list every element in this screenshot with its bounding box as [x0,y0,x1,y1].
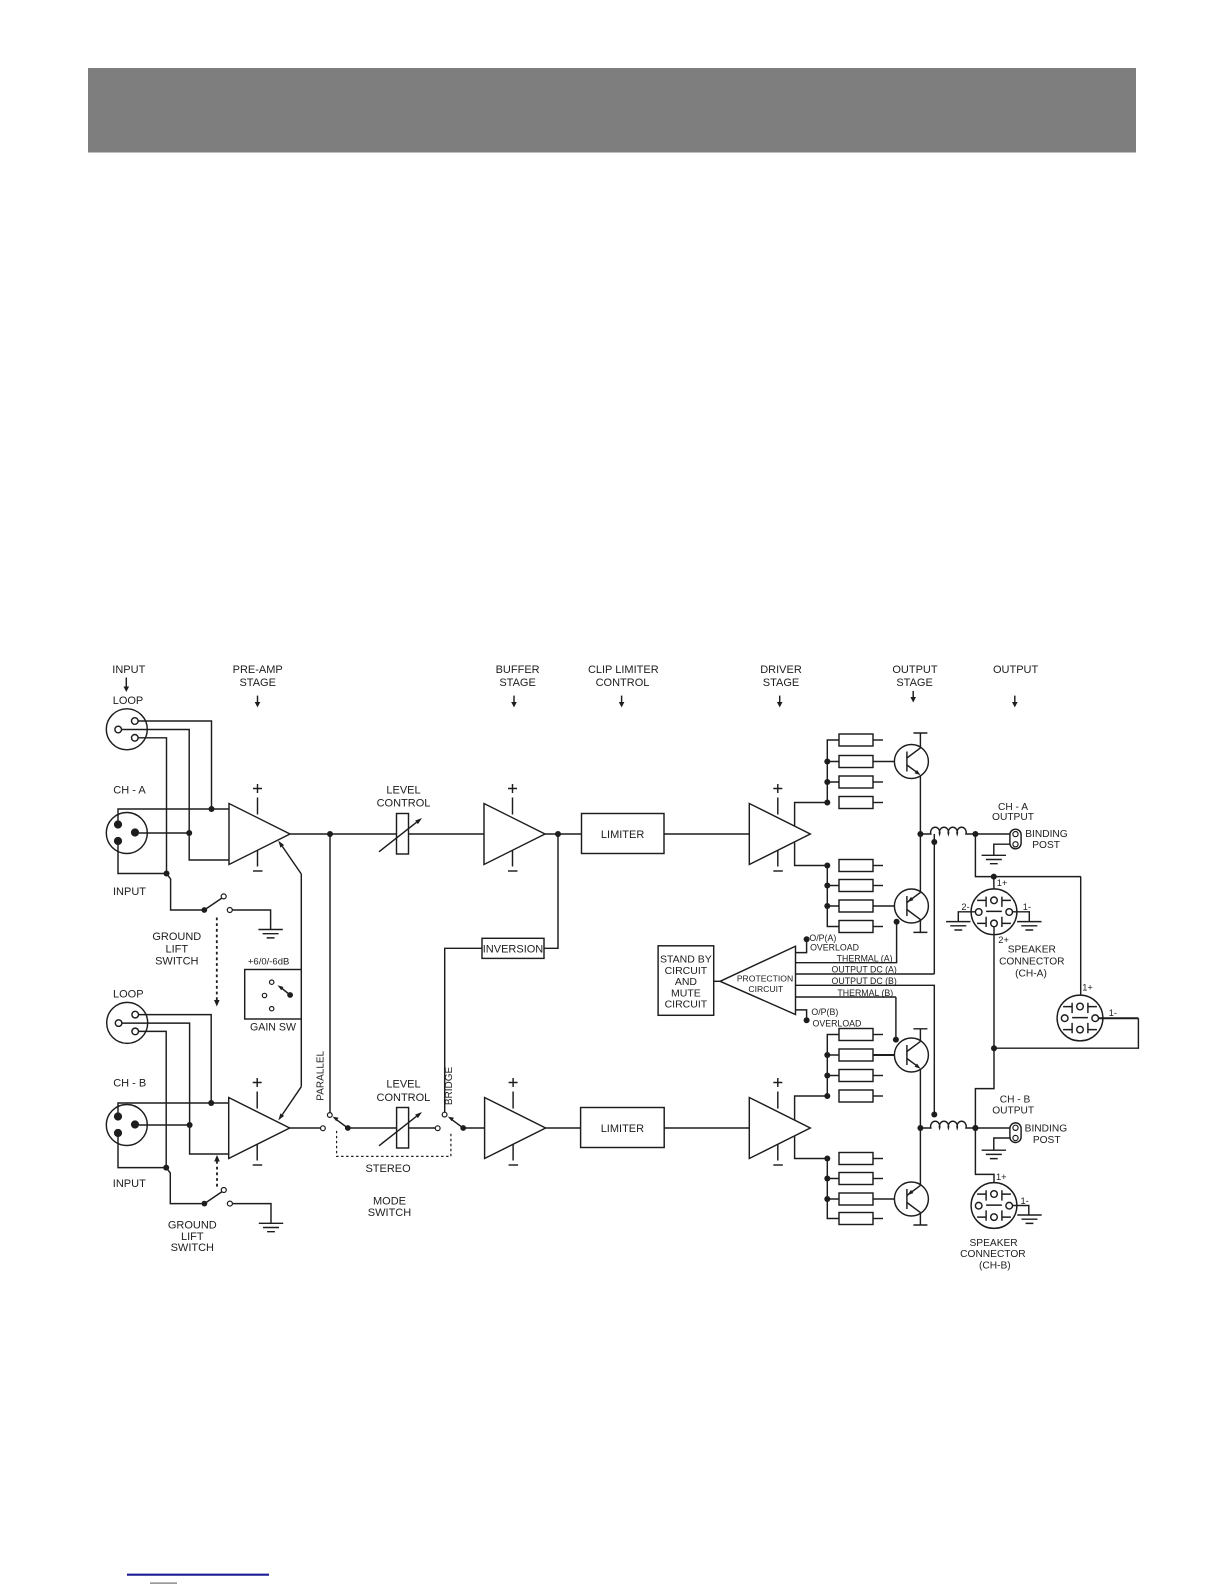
label SPEAKER CONNECTOR (CH-B) [960,1238,1025,1272]
svg-text:CIRCUIT: CIRCUIT [665,999,708,1011]
svg-text:OUTPUT DC (A): OUTPUT DC (A) [832,965,897,975]
resistor B-R5 [839,1153,883,1165]
wire: THERMAL (A) sense line [796,925,897,963]
protection circuit triangle [720,946,795,1014]
wire: loop A pin3 down to ground-lift node [138,738,166,874]
op-amp U4 buffer B [485,1078,546,1165]
wire: PARALLEL line down to mode switch [329,834,331,1113]
wire: switch A contact to ground [232,910,270,929]
ground symbol (speakon A left) [946,922,970,930]
resistor B-R3 [839,1070,883,1082]
wire: level control A to buffer A [409,833,485,835]
junction dot bus B-R3 [824,1073,830,1079]
svg-text:INPUT: INPUT [113,886,146,898]
gain switch contacts [262,980,293,1011]
junction dot bus A-R3 [824,779,830,785]
svg-text:O/P(B): O/P(B) [811,1007,838,1017]
op-amp U3 buffer A [484,784,545,871]
svg-text:INPUT: INPUT [112,664,145,676]
junction dot O/P(B) overload [804,1017,810,1023]
svg-text:OVERLOAD: OVERLOAD [810,943,859,953]
wire: 1+ rail down to bridge connector [1080,877,1082,1004]
svg-text:OUTPUT: OUTPUT [892,664,938,676]
potentiometer VR1 level control A [379,814,422,855]
wire: driver A upper output tap [795,803,828,827]
junction dot bus A-R6 [824,883,830,889]
limiter box B [581,1108,665,1148]
wire: pre-amp B output to stereo contact [290,1127,321,1129]
mode switch S1 (parallel/stereo) [321,1113,351,1131]
junction dot bus A-R2 [824,759,830,765]
svg-text:BINDING: BINDING [1025,1123,1068,1134]
svg-text:AND: AND [675,976,698,988]
svg-text:SWITCH: SWITCH [155,956,198,968]
junction dot speakon A 1+ [991,874,997,880]
arrow under PRE-AMP STAGE [255,696,261,708]
wire: CH-A pin1 up and right to pre-amp A non-inverting input [118,809,229,821]
svg-text:2-: 2- [961,902,969,912]
wire: standby box to protection triangle [714,980,720,982]
svg-text:BINDING: BINDING [1025,829,1068,840]
label GROUND LIFT SWITCH (A) [152,931,201,968]
supply rail bar above Q1 [913,733,927,748]
op-amp U5 driver A [749,784,810,871]
junction dot buffer A output [555,831,561,837]
wire: THERMAL (B) sense line [796,996,896,998]
wire: mode switch A common to level control B [348,1127,397,1129]
ground symbol (binding post B) [982,1150,1006,1158]
wire: CH-A pin3 down to ground-lift node [118,845,167,874]
arrow under BUFFER STAGE [511,696,517,708]
junction dot thermal A [894,919,900,925]
resistor A-R8 [839,921,883,933]
resistor B-R7 [839,1193,907,1205]
junction dot O/P(A) overload [804,936,810,942]
svg-text:STAGE: STAGE [499,677,535,689]
bus: driver A upper resistor bank [827,740,839,803]
speakon connector CN3 (CH-B) [971,1183,1017,1229]
svg-text:STEREO: STEREO [365,1163,411,1175]
wire: driver B lower output tap [795,1137,828,1159]
arrow under OUTPUT STAGE [910,691,916,703]
junction dot bus B-R2 [824,1052,830,1058]
svg-text:THERMAL (B): THERMAL (B) [837,988,893,998]
arrow under OUTPUT [1012,696,1018,708]
resistor B-R6 [839,1173,883,1185]
resistor A-R6 [839,880,883,892]
junction dot bridge return on 2+ line [991,1045,997,1051]
junction dot pre-amp A output node [327,831,333,837]
svg-text:THERMAL (A): THERMAL (A) [837,953,893,963]
svg-text:OUTPUT: OUTPUT [993,664,1039,676]
svg-text:LOOP: LOOP [113,988,144,1000]
wire: loop B pin2 to pre-amp B inverting input [122,1023,229,1154]
svg-text:1+: 1+ [1082,983,1093,993]
svg-text:SPEAKER: SPEAKER [970,1238,1018,1249]
cut-off text fragment at page bottom [150,1582,177,1584]
svg-text:CH - B: CH - B [1000,1095,1031,1106]
wire: bridge connector 1- return to CH-B output [1099,1017,1139,1019]
arrow under DRIVER STAGE [777,696,783,708]
wire: inversion box to bridge contact of mode switch [445,948,482,1112]
ground symbol (speakon B right) [1017,1215,1041,1223]
label STAND BY CIRCUIT AND MUTE CIRCUIT [660,953,712,1010]
junction dot DC sense A [931,839,937,845]
junction dot CH-B pin2 / loop pin2 bus [187,1122,193,1128]
svg-text:CH - A: CH - A [113,785,146,797]
svg-text:CH - B: CH - B [113,1077,146,1089]
wire: node B down to speakon B pin 1+ [975,1128,994,1190]
resistor A-R2 [839,756,907,768]
wire: buffer B output to limiter B [546,1127,581,1129]
inductor L1 (CH-A output) [920,827,975,834]
junction dot on 2+ line at node B [972,1125,978,1131]
wire: CH-B pin1 up and right to pre-amp B non-inverting input [118,1103,229,1113]
arrow under INPUT [124,678,130,693]
gain switch box GAIN SW [245,970,302,1020]
wire: switch B contact to ground [232,1204,271,1223]
svg-text:OUTPUT: OUTPUT [992,1106,1034,1117]
wire: speakon B pin1- to ground [1012,1206,1028,1215]
svg-text:MODE: MODE [373,1195,406,1207]
dashed gang link arrow (B) [214,1155,220,1189]
svg-text:CIRCUIT: CIRCUIT [665,965,708,977]
wire: Q2 emitter up to output node A [919,834,921,892]
svg-text:CONTROL: CONTROL [596,677,650,689]
ground lift switch B [202,1188,233,1207]
wire: binding post B ground lead [994,1138,1010,1150]
junction dot DC sense B [931,1112,937,1118]
op-amp U1 pre-amp A [229,784,290,871]
wire: speakon A pin2- to ground [958,912,975,922]
wire: loop A pin2 to pre-amp A inverting input [122,730,229,861]
resistor A-R7 [839,900,907,912]
svg-text:1+: 1+ [997,878,1008,888]
inversion box [482,938,544,958]
svg-text:O/P(A): O/P(A) [809,933,836,943]
op-amp U6 driver B [749,1078,810,1165]
resistor A-R3 [839,776,883,788]
svg-text:LEVEL: LEVEL [386,1078,420,1090]
wire: buffer A output down to inversion box [544,834,558,948]
wire: bridge return down and left [994,1018,1138,1048]
svg-text:POST: POST [1033,1135,1061,1146]
svg-text:PRE-AMP: PRE-AMP [233,664,283,676]
junction dot CH-A pin2 / loop pin2 bus [186,830,192,836]
bottom blue rule [127,1574,269,1576]
wire: driver B upper output tap [795,1096,828,1120]
wire: down to speakon A pin 1+ [993,877,995,898]
wire: O/P(A) overload stub [796,942,807,953]
junction dot bus A-R4 (driver tap) [824,800,830,806]
svg-text:1-: 1- [1109,1008,1117,1018]
ground symbol (ground lift B) [259,1223,283,1231]
svg-text:GAIN SW: GAIN SW [250,1022,296,1034]
label O/P(B) OVERLOAD [811,1007,861,1028]
wire: CH-B pin3 down to ground-lift node [118,1137,166,1168]
resistor A-R1 [839,734,883,746]
svg-text:(CH-B): (CH-B) [979,1260,1011,1271]
supply rail bar below Q2 [913,920,927,933]
label BINDING POST (B) [1025,1123,1068,1146]
wire: Q3 emitter down to output node B [919,1069,921,1128]
svg-text:DRIVER: DRIVER [760,664,802,676]
supply rail bar above Q3 [913,1029,927,1042]
svg-text:MUTE: MUTE [671,987,701,999]
resistor B-R8 [839,1213,883,1225]
svg-text:2+: 2+ [998,935,1009,945]
svg-text:PROTECTION: PROTECTION [737,974,793,984]
wire: OUTPUT DC (B) sense line [796,985,935,1113]
wire: level control B to stereo contact B [409,1127,436,1129]
label BINDING POST (A) [1025,829,1068,851]
svg-text:OVERLOAD: OVERLOAD [813,1018,862,1028]
junction dot after inductor A [972,831,978,837]
svg-text:LEVEL: LEVEL [386,784,420,796]
resistor A-R4 [839,797,883,809]
svg-text:GROUND: GROUND [152,931,201,943]
wire: OUTPUT DC (A) sense line [796,973,935,975]
wire: loop A pin1 to node at pre-amp A input [138,721,211,809]
resistor B-R2 [839,1049,907,1061]
svg-text:1-: 1- [1021,1196,1029,1206]
gain feedback arrow into pre-amp B [278,1087,301,1121]
wire: Q1 emitter down to output node A [919,775,921,834]
svg-text:STAND BY: STAND BY [660,953,712,965]
wire: node to binding post B [975,1127,1010,1129]
standby box [658,946,714,1016]
junction dot after inductor B [972,1125,978,1131]
svg-text:BRIDGE: BRIDGE [444,1067,455,1106]
svg-text:CLIP LIMITER: CLIP LIMITER [588,664,659,676]
XLR input connector J4 (CH-B INPUT) [106,1105,147,1146]
wire: node to ground-lift switch A common [167,874,202,911]
junction dot ground-lift node A [164,871,170,877]
junction dot thermal B [893,1037,899,1043]
wire: limiter B to driver B [664,1127,749,1129]
wire: gain box up to pre-amp A arrow [300,874,302,970]
junction dot bus B-R4 (driver tap) [824,1093,830,1099]
svg-text:1+: 1+ [996,1172,1007,1182]
wire: loop B pin3 down to ground-lift node [139,1031,167,1167]
svg-text:INPUT: INPUT [113,1178,146,1190]
junction dot output node B [917,1125,923,1131]
svg-text:SWITCH: SWITCH [368,1207,411,1219]
junction dot bus A-R5 (driver tap) [824,863,830,869]
label PROTECTION CIRCUIT [737,974,793,994]
svg-text:STAGE: STAGE [896,677,932,689]
wire: node to binding post A [975,833,1010,835]
wire: speakon A pin1- to ground [1012,912,1029,922]
wire: driver A lower output tap [795,843,828,866]
wire: output A down to speakon 1+ rail [975,834,1081,877]
svg-text:GROUND: GROUND [168,1219,217,1231]
XLR loop connector J3 (CH-B LOOP) [107,1002,148,1043]
transistor Q3 (NPN upper CH-B) [894,1038,928,1072]
resistor A-R5 [839,860,883,872]
dashed stereo bracket [337,1131,451,1157]
svg-text:CONNECTOR: CONNECTOR [960,1249,1025,1260]
label MODE SWITCH [368,1195,411,1219]
junction dot ground-lift node B [163,1165,169,1171]
wire: buffer A output to limiter A [545,833,582,835]
op-amp U2 pre-amp B [229,1078,290,1165]
svg-text:SWITCH: SWITCH [171,1242,214,1254]
svg-text:STAGE: STAGE [239,677,275,689]
wire: gain box down to pre-amp B arrow [300,1019,302,1087]
svg-text:OUTPUT: OUTPUT [992,812,1034,823]
label O/P(A) OVERLOAD [809,933,859,953]
bus: driver A lower resistor bank [827,866,839,927]
junction dot bus B-R5 (driver tap) [824,1156,830,1162]
wire: DC sense tap A down [933,834,935,974]
XLR input connector J2 (CH-A INPUT) [106,813,147,854]
svg-text:(CH-A): (CH-A) [1015,969,1047,980]
svg-text:CONTROL: CONTROL [377,1092,431,1104]
resistor B-R4 [839,1090,883,1102]
svg-text:1-: 1- [1023,902,1031,912]
svg-text:LIFT: LIFT [165,944,188,956]
svg-text:CIRCUIT: CIRCUIT [748,984,784,994]
wire: CH-B pin2 to vertical bus [139,1124,190,1126]
junction dot on pre-amp B input line [208,1100,214,1106]
potentiometer VR2 level control B [379,1108,422,1149]
dashed gang link arrow (A) [214,918,220,1007]
wire: speakon A pin2+ down to CH-B output node [975,927,994,1128]
transistor Q2 (PNP lower CH-A) [894,889,928,923]
wire: mode switch B common to buffer B [463,1127,484,1129]
wire: Q4 emitter up to output node B [919,1128,921,1185]
wire: O/P(B) overload stub [796,1010,807,1018]
XLR loop connector J1 (CH-A LOOP) [106,709,147,750]
wire: CH-A pin2 to vertical bus [139,832,189,834]
svg-text:LIMITER: LIMITER [601,829,644,841]
ground symbol (speakon A right) [1017,922,1041,930]
wire: pre-amp A output [290,833,397,835]
svg-text:POST: POST [1032,840,1060,851]
gain feedback arrow into pre-amp A [278,841,301,874]
supply rail bar below Q4 [913,1213,927,1225]
svg-text:+6/0/-6dB: +6/0/-6dB [248,957,289,968]
junction dot output node A [917,831,923,837]
svg-text:SPEAKER: SPEAKER [1008,945,1056,956]
junction dot bus A-R7 [824,903,830,909]
svg-text:BUFFER: BUFFER [496,664,540,676]
svg-text:INVERSION: INVERSION [483,944,544,956]
bus: driver B lower resistor bank [827,1159,839,1219]
resistor B-R1 [839,1029,883,1041]
svg-text:PARALLEL: PARALLEL [315,1050,326,1100]
arrow under CLIP LIMITER CONTROL [619,696,625,708]
junction dot bus B-R7 [824,1196,830,1202]
wire: loop B pin1 to node at pre-amp B input [139,1015,212,1103]
svg-text:LIMITER: LIMITER [601,1123,644,1135]
label CH - B OUTPUT [992,1095,1034,1117]
ground symbol (binding post A) [982,855,1006,863]
ground symbol (ground lift A) [258,930,282,938]
inductor L2 (CH-B output) [920,1121,975,1128]
binding post B [1010,1123,1021,1143]
limiter box A [582,814,665,854]
mode switch S2 (bridge/stereo) [435,1112,466,1131]
label SPEAKER CONNECTOR (CH-A) [999,945,1064,980]
bus: driver B upper resistor bank [827,1035,839,1097]
bridge speakon connector CN2 [1057,995,1103,1041]
junction dot bus B-R6 [824,1176,830,1182]
wire: limiter A to driver A [664,833,749,835]
wire: binding post A ground lead [994,844,1010,855]
svg-text:CONTROL: CONTROL [377,798,431,810]
speakon connector CN1 (CH-A) [971,889,1017,935]
ground lift switch A [201,894,232,913]
svg-text:OUTPUT DC (B): OUTPUT DC (B) [832,976,897,986]
gray header bar [88,68,1136,153]
svg-text:CONNECTOR: CONNECTOR [999,957,1064,968]
transistor Q4 (PNP lower CH-B) [894,1182,928,1216]
label CH - A OUTPUT [992,802,1034,823]
wire: node to ground-lift switch B common [166,1168,202,1204]
transistor Q1 (NPN upper CH-A) [894,745,928,779]
label GROUND LIFT SWITCH (B) [168,1219,217,1254]
svg-text:LOOP: LOOP [113,695,144,707]
junction dot on pre-amp A input line [209,806,215,812]
binding post A [1010,829,1021,849]
svg-text:STAGE: STAGE [763,677,799,689]
